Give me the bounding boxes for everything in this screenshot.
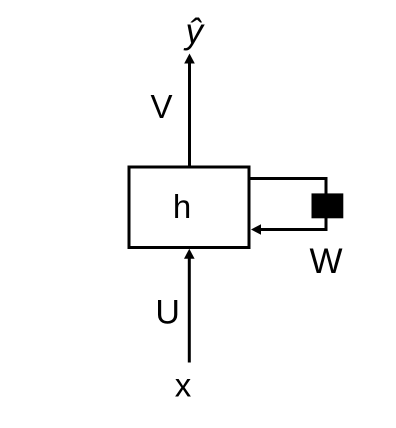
- svg-text:h: h: [173, 188, 191, 225]
- box h (hidden state): [129, 167, 249, 248]
- wire V (output arrow from h to y-hat): [188, 63, 191, 169]
- delay square (black unit on feedback path): [312, 193, 344, 218]
- arrowhead U: [184, 249, 195, 259]
- wire W (recurrent feedback loop): [249, 179, 326, 230]
- svg-text:V: V: [150, 88, 172, 125]
- arrowhead V: [184, 54, 195, 64]
- svg-text:W: W: [309, 242, 342, 281]
- svg-text:ŷ: ŷ: [184, 12, 206, 51]
- svg-text:x: x: [175, 367, 192, 404]
- arrowhead W: [251, 224, 261, 235]
- wire U (input arrow from x to h): [188, 258, 191, 363]
- svg-text:U: U: [155, 294, 180, 332]
